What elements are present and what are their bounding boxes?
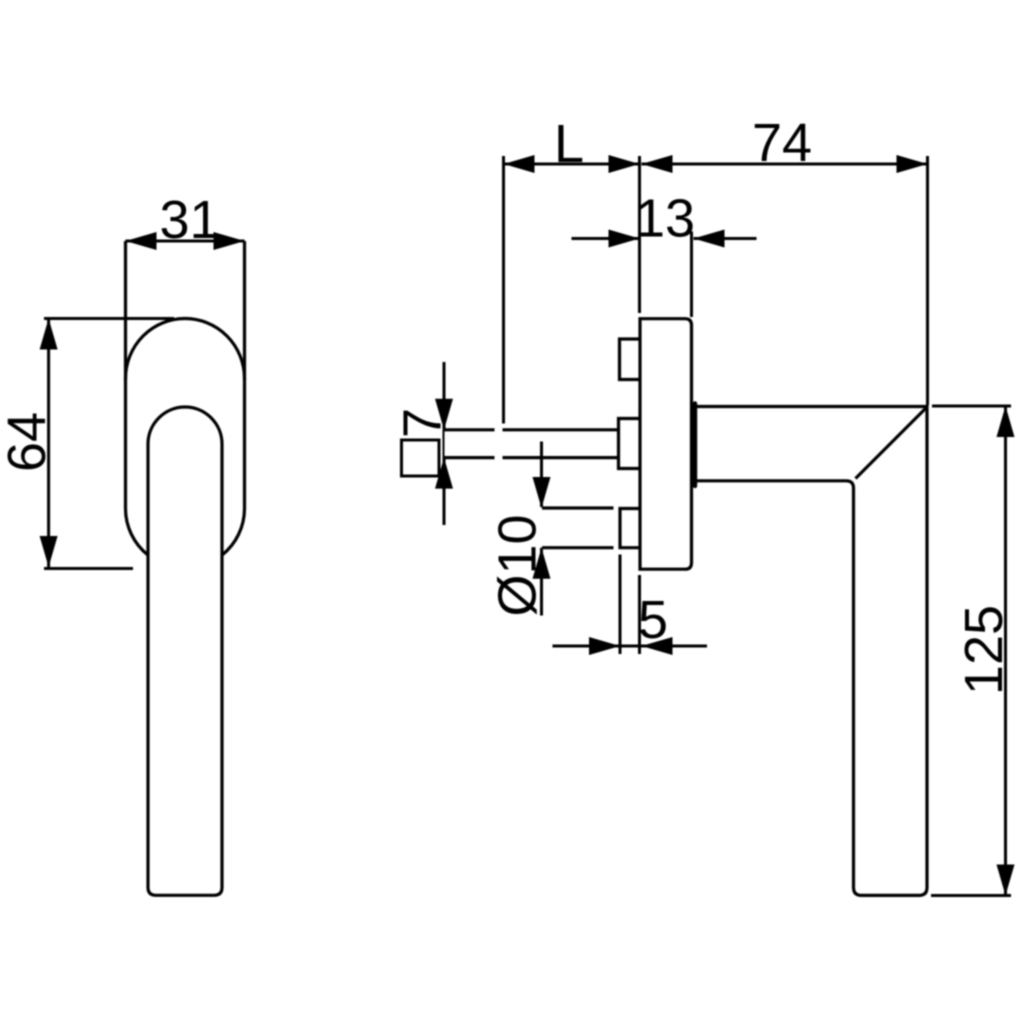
dim 125: extension top — [932, 405, 1011, 408]
spindle bar top line — [444, 428, 495, 431]
dim 31: arrows — [126, 232, 157, 250]
dim 64: extension top — [44, 317, 174, 320]
rosette outer oval bottom-left arc — [126, 509, 149, 556]
handle neck inner arc — [148, 407, 222, 444]
dim 5: left extension — [619, 555, 622, 655]
svg-text:64: 64 — [0, 412, 57, 472]
svg-text:13: 13 — [635, 189, 695, 249]
handle grip front outline — [148, 444, 222, 895]
spindle bearing block — [619, 419, 641, 469]
svg-text:5: 5 — [638, 590, 668, 650]
extension line center lower — [638, 575, 641, 654]
dim 7: lower leader — [443, 458, 446, 525]
dim Ø10: lower leader — [540, 548, 543, 616]
top screw boss — [620, 339, 641, 380]
extension line center — [638, 156, 641, 313]
neck end cap — [693, 404, 697, 487]
dim 31: extension/side lines — [124, 241, 127, 380]
extension line right (74) — [926, 156, 929, 405]
rosette outer oval bottom-right arc — [222, 509, 245, 556]
dim Ø10: upper leader — [540, 442, 543, 508]
dim 31: dimension line — [126, 240, 245, 243]
spindle bar left cap — [443, 430, 445, 458]
extension line left (L) — [502, 156, 505, 424]
dim 64: arrows — [40, 319, 58, 350]
dim 7: upper leader — [443, 362, 446, 430]
svg-text:7: 7 — [393, 408, 453, 438]
spindle bar bottom line — [444, 456, 495, 459]
rosette outer oval: sides + top arc — [126, 319, 245, 509]
dim 64: extension bottom — [44, 567, 133, 570]
rosette plate side view — [640, 319, 692, 570]
dim 125: extension bottom — [931, 894, 1011, 897]
bottom screw boss — [620, 509, 640, 548]
svg-text:Ø10: Ø10 — [488, 514, 548, 616]
dim 13: right extension — [690, 232, 693, 318]
screw cylinder Ø10 — [542, 506, 614, 509]
svg-text:74: 74 — [752, 113, 812, 173]
svg-text:125: 125 — [954, 605, 1014, 695]
handle arm and grip side outline — [695, 407, 927, 896]
svg-text:31: 31 — [159, 190, 219, 250]
top dimension line 74 — [642, 163, 928, 166]
spindle square end — [402, 440, 440, 476]
dim 5: dimension line — [553, 645, 708, 648]
svg-text:L: L — [554, 114, 584, 174]
dim 64: dimension line — [47, 319, 50, 568]
bend miter line — [856, 409, 926, 479]
dim 13: leaders and arrows — [572, 237, 640, 240]
top dimension line L — [504, 163, 640, 166]
dim 125: dimension line — [1004, 406, 1007, 896]
